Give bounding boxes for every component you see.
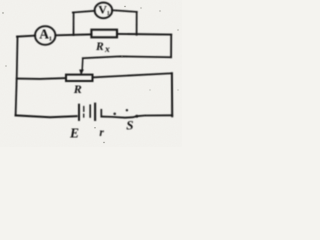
resistor Rx (box)	[91, 30, 117, 38]
wire: slider horizontal (to rheostat wiper)	[83, 56, 171, 58]
wire: ammeter to Rx box (through voltmeter tap node)	[55, 33, 91, 36]
wire: Rx box to top-right corner	[117, 33, 171, 36]
switch S contacts	[113, 109, 138, 118]
wire: rheostat box to lower-right vertical	[93, 73, 172, 77]
rheostat R slider arrow	[79, 58, 84, 75]
paper grain overlay	[0, 0, 182, 147]
wire: voltmeter branch top-left horizontal	[73, 11, 95, 13]
scan noise specks	[2, 6, 178, 143]
ammeter A1	[35, 26, 55, 45]
battery E,r (plates)	[79, 104, 101, 120]
wire: voltmeter branch top-right horizontal	[112, 10, 137, 12]
wire: top-left horizontal into ammeter	[17, 36, 35, 37]
voltmeter V1	[95, 2, 113, 18]
wire: bottom-right horizontal with switch lever (wavy)	[102, 115, 173, 117]
wire: voltmeter branch right vertical down to main wire	[136, 12, 138, 35]
wire: left vertical (battery- up to top-left corner)	[16, 37, 18, 116]
wire: upper-right vertical (top wire down to slider wire)	[170, 35, 172, 58]
wire: bottom-left horizontal to battery	[16, 115, 77, 117]
wire: left vertical to rheostat box (middle horizontal)	[17, 77, 66, 80]
label Rx	[95, 41, 110, 55]
wire: voltmeter branch left vertical	[73, 12, 75, 35]
rheostat R (box)	[66, 75, 93, 81]
wire: lower-right vertical down to bottom wire	[171, 73, 173, 116]
